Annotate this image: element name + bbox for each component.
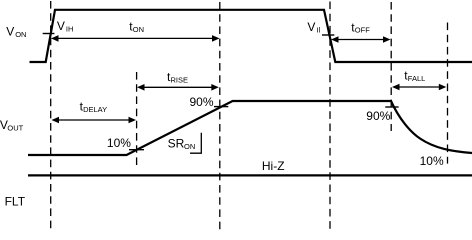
svg-text:Il: Il [316, 26, 320, 35]
svg-text:SR: SR [168, 137, 185, 151]
svg-text:IH: IH [66, 25, 74, 34]
svg-text:Hi-Z: Hi-Z [262, 159, 285, 173]
svg-text:ON: ON [15, 30, 26, 39]
svg-text:90%: 90% [366, 109, 390, 123]
svg-text:10%: 10% [107, 136, 131, 150]
svg-text:V: V [57, 19, 65, 33]
svg-text:V: V [6, 24, 14, 38]
svg-text:10%: 10% [420, 154, 444, 168]
svg-text:ON: ON [133, 25, 144, 34]
svg-text:RISE: RISE [171, 75, 189, 84]
svg-text:ON: ON [184, 142, 195, 151]
svg-text:90%: 90% [190, 95, 214, 109]
svg-text:OFF: OFF [355, 26, 370, 35]
svg-text:FLT: FLT [5, 194, 26, 208]
svg-text:V: V [307, 20, 315, 34]
svg-text:OUT: OUT [7, 124, 23, 133]
svg-text:DELAY: DELAY [83, 105, 107, 114]
svg-text:FALL: FALL [408, 74, 426, 83]
